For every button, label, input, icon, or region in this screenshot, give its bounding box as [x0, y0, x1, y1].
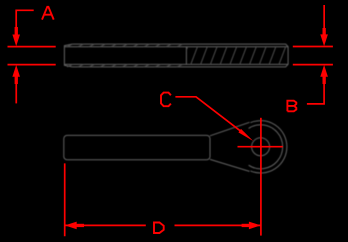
stud body outline (top section view) [64, 44, 288, 67]
thread ticks bottom band [67, 64, 183, 67]
ball centerline vertical / D extension right [260, 118, 262, 236]
dimension D left arrow [65, 222, 84, 230]
ball center small circle [252, 138, 270, 156]
dimension A bottom arrow [12, 65, 20, 104]
label B [287, 101, 296, 112]
label A [42, 7, 54, 20]
dimension A top arrow [12, 27, 20, 46]
dimension D right arrow [242, 222, 261, 230]
dimension A extension line bottom [8, 64, 56, 66]
leader C arrowhead [238, 129, 253, 141]
thread ticks top band [67, 44, 183, 47]
leader C line [175, 97, 240, 131]
dimension B bottom arrow and leader [320, 65, 328, 84]
dimension D extension line left [64, 163, 66, 236]
bore end face [185, 47, 187, 65]
cone flare bottom [210, 159, 250, 171]
label C [161, 93, 171, 107]
ball centerline horizontal [238, 146, 283, 148]
shank cylinder (bottom side view) [64, 135, 210, 159]
dimension D line left segment [65, 224, 146, 226]
ball outer arc [250, 121, 286, 173]
dimension A extension line top [8, 46, 56, 48]
dense section hatching (swaged solid part) [180, 45, 296, 67]
cone flare top [210, 122, 250, 136]
label D [154, 223, 164, 234]
bore line top [64, 46, 288, 48]
dimension A leader elbow [16, 10, 34, 28]
dimension B extension line bottom [293, 64, 333, 66]
bore line bottom [64, 63, 288, 65]
dimension B top arrow [320, 5, 328, 46]
dimension D line right segment [175, 224, 261, 226]
ball inner arc [249, 125, 283, 169]
dimension B extension line top [293, 46, 333, 48]
